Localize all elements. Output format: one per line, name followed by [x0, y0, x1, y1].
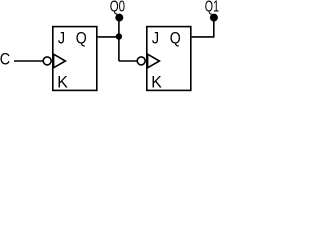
wire riser up to Q1 terminal — [213, 18, 215, 38]
Q1 terminal dot — [210, 14, 218, 22]
clock edge triangle U1 — [54, 54, 66, 68]
clock bubble FF1 — [43, 57, 51, 65]
wire junction up to Q0 terminal — [118, 18, 120, 62]
clock edge triangle U2 — [148, 54, 160, 68]
flip-flop U1 box — [53, 27, 97, 91]
clock bubble FF2 — [137, 57, 145, 65]
flip-flop U2 box — [147, 27, 191, 91]
svg-text:K: K — [151, 73, 162, 92]
svg-text:K: K — [57, 73, 68, 92]
Q0 terminal dot — [115, 14, 123, 22]
junction dot — [116, 33, 122, 39]
svg-text:J: J — [152, 28, 159, 47]
wire junction down and right to FF2 clock bubble — [119, 60, 137, 62]
wire U2 Q output to Q1 riser — [192, 36, 214, 38]
svg-text:C: C — [0, 50, 10, 69]
wire U1 Q output to junction — [98, 36, 119, 38]
svg-text:Q: Q — [76, 28, 87, 47]
svg-text:J: J — [58, 28, 65, 47]
svg-text:Q0: Q0 — [110, 0, 126, 16]
svg-text:Q: Q — [170, 28, 181, 47]
wire C to FF1 clock bubble — [14, 60, 43, 62]
svg-text:Q1: Q1 — [205, 0, 219, 16]
